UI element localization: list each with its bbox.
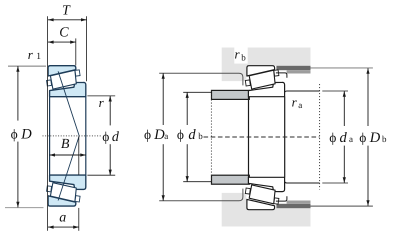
svg-text:ϕ: ϕ: [144, 127, 151, 142]
housing shoulder dark band bottom: [276, 204, 310, 208]
load centre extension: [78, 136, 80, 175]
shaft break line left: [210, 91, 212, 185]
cage tab left top: [47, 80, 52, 86]
shaft break line right: [319, 84, 321, 190]
svg-text:B: B: [61, 137, 70, 152]
cone front face edge: [49, 97, 51, 175]
Db bore line top: [311, 67, 373, 69]
svg-text:b: b: [198, 131, 203, 141]
svg-text:d: d: [188, 127, 196, 143]
housing block bottom: [222, 193, 311, 227]
housing shoulder dark band top: [276, 66, 310, 70]
svg-text:ϕ: ϕ: [11, 126, 18, 141]
housing bore line with rb fillet top: [159, 73, 243, 85]
svg-text:T: T: [62, 4, 71, 19]
dimension phi D: [5, 66, 46, 208]
shoulder recess hook top: [276, 73, 287, 78]
housing shoulder grey band bottom: [287, 201, 311, 204]
bottom half of bearing (mirror): [47, 136, 86, 206]
svg-text:ϕ: ϕ: [359, 130, 366, 145]
svg-text:d: d: [340, 130, 348, 146]
left view: bearing cross-section: [43, 66, 101, 206]
cage tab right top: [75, 70, 80, 76]
shaft shoulder line right bottom with ra fillet: [284, 180, 319, 183]
shaft shoulder bar left top: [212, 90, 250, 99]
outer ring (cup) top half: [48, 66, 76, 76]
svg-text:ϕ: ϕ: [177, 127, 184, 142]
tapered roller top: [50, 70, 76, 89]
cone face edges right view: [248, 97, 250, 178]
centre axis (dotted): [43, 135, 101, 137]
dimension phi Db: [359, 68, 387, 206]
dimension C: [48, 26, 76, 44]
svg-text:1: 1: [36, 52, 41, 62]
dimension phi db: [177, 92, 211, 181]
svg-text:ϕ: ϕ: [102, 129, 109, 144]
svg-text:d: d: [112, 130, 120, 145]
inner ring (cone) top half: [50, 82, 86, 96]
shoulder recess hook bottom: [276, 196, 287, 201]
da extension beyond break top: [322, 90, 348, 92]
svg-text:b: b: [241, 52, 246, 62]
svg-text:D: D: [369, 130, 381, 146]
shaft axis dashed: [204, 136, 320, 138]
bearing in housing (right view): [245, 66, 284, 210]
svg-text:a: a: [164, 131, 168, 141]
rb label background: [234, 47, 247, 64]
svg-text:r: r: [28, 47, 34, 62]
dimension phi d: [87, 96, 120, 175]
svg-text:a: a: [59, 210, 66, 225]
Db bore line bottom: [311, 205, 373, 207]
cone back face edge: [85, 97, 87, 175]
svg-text:r: r: [99, 95, 105, 110]
extension lines a: [78, 208, 80, 231]
housing shoulder grey band top: [287, 70, 311, 73]
dimension T: [48, 4, 87, 22]
svg-text:r: r: [292, 95, 298, 110]
shaft shoulder bar left bottom: [212, 175, 250, 184]
shaft shoulder line right top with ra fillet: [284, 91, 319, 94]
dimension B: [49, 137, 86, 157]
svg-text:a: a: [298, 100, 302, 110]
housing bore line with rb fillet bottom: [159, 189, 243, 201]
svg-text:D: D: [20, 126, 32, 142]
da extension beyond break bottom: [322, 182, 348, 184]
extension line C right: [75, 38, 77, 65]
dimension phi Da: [144, 73, 168, 201]
contact/apex line top: [58, 71, 79, 136]
svg-text:C: C: [59, 26, 69, 41]
housing block top: [222, 48, 311, 82]
svg-text:b: b: [382, 134, 387, 144]
dimension a: [48, 210, 79, 228]
svg-text:a: a: [349, 134, 353, 144]
extension lines T: [47, 16, 49, 231]
dimension phi da: [329, 91, 353, 183]
svg-text:ϕ: ϕ: [329, 130, 336, 145]
